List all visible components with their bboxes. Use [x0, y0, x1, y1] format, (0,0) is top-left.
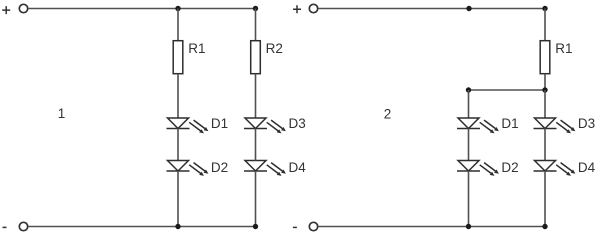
resistor R2: [251, 41, 261, 74]
resistor R1: [173, 41, 183, 74]
svg-text:2: 2: [384, 107, 392, 122]
positive terminal (circuit 2): [309, 4, 317, 12]
svg-text:D2: D2: [501, 160, 518, 175]
wire: top rail (circuit 2): [318, 8, 545, 10]
node: bottom junction left branch (circuit 2): [466, 224, 471, 229]
svg-text:R1: R1: [555, 41, 572, 56]
wire: R2 to D3: [255, 74, 257, 118]
svg-text:D2: D2: [211, 160, 228, 175]
wire: branch 1 from rail to R1: [177, 9, 179, 42]
wire: D2 to bottom rail: [177, 171, 179, 227]
svg-text:R2: R2: [266, 41, 283, 56]
wire: bottom rail (circuit 2): [318, 226, 545, 228]
wire: D4 to bottom rail (circuit 2): [544, 171, 546, 227]
wire: connector to D1 (circuit 2): [468, 90, 470, 118]
plus label (circuit 1): [2, 6, 10, 14]
wire: D3 to D4 (circuit 2): [544, 129, 546, 161]
node: bottom junction right branch (circuit 2): [542, 224, 547, 229]
minus label (circuit 1): [3, 226, 7, 228]
LED D4 (circuit 2): [534, 161, 576, 176]
LED D3 (circuit 2): [534, 118, 576, 133]
wire: horizontal connector node: [469, 89, 546, 91]
minus label (circuit 2): [293, 226, 297, 228]
svg-text:D1: D1: [211, 116, 228, 131]
svg-text:R1: R1: [188, 41, 205, 56]
LED D3: [244, 118, 286, 133]
negative terminal (circuit 2): [309, 222, 317, 230]
svg-text:D4: D4: [578, 160, 596, 175]
wire: D1 to D2 (circuit 2): [468, 129, 470, 161]
wire: connector to D3 (circuit 2): [544, 90, 546, 118]
wire: R1 to D1: [177, 74, 179, 118]
svg-text:D3: D3: [578, 116, 595, 131]
wire: top rail (circuit 1): [28, 8, 256, 10]
wire: R1 down to connector: [544, 74, 546, 90]
node: bottom junction branch 2: [253, 224, 258, 229]
node: stray junction dot on top rail: [466, 6, 471, 11]
wire: D4 to bottom rail: [255, 171, 257, 227]
node: connector left junction: [466, 87, 471, 92]
node: top rail corner junction: [542, 6, 547, 11]
positive terminal (circuit 1): [19, 4, 27, 12]
node: connector right junction: [542, 87, 547, 92]
resistor R1 (circuit 2): [540, 41, 550, 74]
wire: rail corner down to R1: [544, 9, 546, 42]
wire: branch 2 from rail to R2: [255, 9, 257, 42]
wire: D3 to D4: [255, 129, 257, 161]
svg-text:D1: D1: [501, 116, 518, 131]
plus label (circuit 2): [293, 5, 301, 13]
svg-text:1: 1: [58, 106, 66, 121]
LED D1: [167, 118, 209, 133]
LED D4: [244, 161, 286, 176]
node: junction on top rail at branch 1: [175, 6, 180, 11]
LED D2: [167, 161, 209, 176]
wire: D2 to bottom rail (circuit 2): [468, 171, 470, 227]
LED D1 (circuit 2): [457, 118, 499, 133]
node: bottom junction branch 1: [175, 224, 180, 229]
wire: bottom rail (circuit 1): [28, 226, 256, 228]
wire: D1 to D2: [177, 129, 179, 161]
LED D2 (circuit 2): [457, 161, 499, 176]
node: junction on top rail at branch 2: [253, 6, 258, 11]
svg-text:D3: D3: [289, 116, 306, 131]
svg-text:D4: D4: [289, 160, 307, 175]
negative terminal (circuit 1): [19, 222, 27, 230]
